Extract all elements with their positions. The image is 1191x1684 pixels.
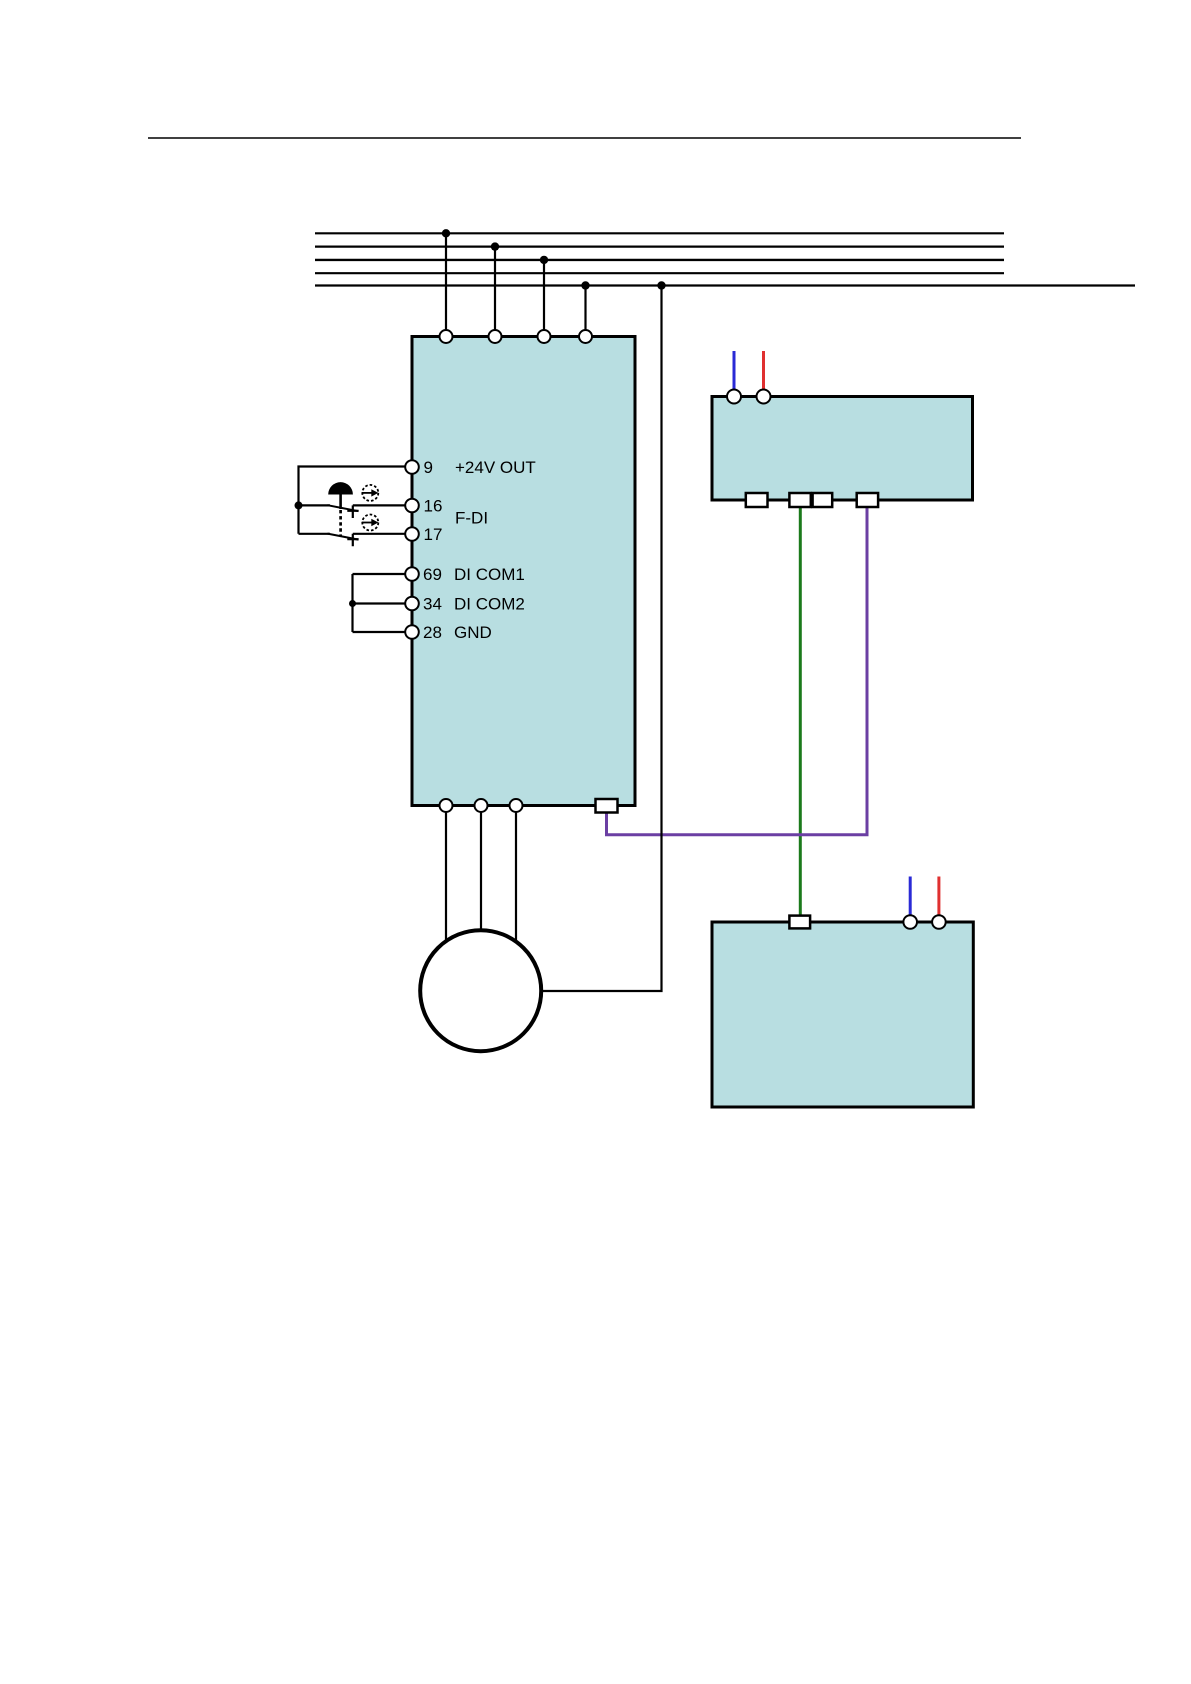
- terminal circle - pin 16: [405, 499, 419, 513]
- wire - drop from bus line 3 to drive terminal 3: [543, 260, 545, 337]
- terminal circle - pin 17: [405, 527, 419, 541]
- connector - controller top port: [789, 916, 810, 929]
- positive opening symbol 1: [362, 485, 379, 501]
- svg-text:17: 17: [424, 525, 443, 544]
- motor M1: [420, 930, 541, 1051]
- wire - motor phase W: [515, 806, 517, 946]
- contact 1 blade (NC): [328, 505, 359, 511]
- wire - mains bus line 3: [315, 259, 1004, 261]
- junction at COM link: [349, 600, 356, 607]
- controller box (lower right): [712, 922, 973, 1107]
- svg-text:69: 69: [423, 565, 442, 584]
- svg-text:16: 16: [424, 497, 443, 516]
- terminal circle - safety relay supply 1: [727, 390, 741, 404]
- terminal circle - drive input 4: [579, 330, 592, 343]
- svg-text:DI COM1: DI COM1: [454, 565, 525, 584]
- junction on bus line 5 (drive feed): [581, 281, 589, 289]
- wire - contact 2 to pin 17: [353, 533, 406, 535]
- wire - mains bus line 2: [315, 246, 1004, 248]
- terminal circle - controller supply 1: [903, 915, 917, 929]
- wire - drop from bus line 5 to drive terminal 4: [584, 286, 586, 337]
- svg-text:28: 28: [423, 623, 442, 642]
- wire - red supply to controller: [937, 877, 940, 916]
- terminal circle - pin 9: [405, 460, 419, 474]
- svg-text:9: 9: [424, 458, 433, 477]
- wire - to pin 34: [353, 602, 406, 604]
- terminal circle - drive output V: [475, 799, 488, 812]
- wire - drop from bus line 2 to drive terminal 2: [494, 247, 496, 337]
- terminal circle - pin 28: [405, 625, 419, 639]
- connector - safety relay bottom port 3: [813, 493, 833, 507]
- junction on bus line 2: [491, 242, 499, 250]
- wire - motor phase V: [480, 806, 482, 936]
- junction on bus line 5 (motor feed): [657, 281, 665, 289]
- drive box U1: [412, 337, 635, 806]
- wire - to pin 28: [353, 631, 406, 633]
- connector - safety relay bottom port 1: [746, 493, 768, 507]
- wire - blue supply to controller: [909, 877, 912, 916]
- junction at e-stop branch: [295, 501, 303, 509]
- contact 1 fixed terminal: [347, 505, 358, 518]
- wire - red supply to safety relay: [762, 351, 765, 390]
- contact 2 fixed terminal: [347, 534, 358, 547]
- header rule: [148, 137, 1021, 139]
- wire - green cable from safety relay to controller: [799, 507, 802, 916]
- junction on bus line 3: [540, 256, 548, 264]
- svg-text:34: 34: [423, 595, 442, 614]
- safety relay box (upper right): [712, 397, 973, 501]
- junction on bus line 1: [442, 229, 450, 237]
- wire - mains bus line 4: [315, 272, 1004, 274]
- svg-text:+24V OUT: +24V OUT: [455, 458, 536, 477]
- wire - to pin 69: [353, 573, 406, 575]
- connector - drive X (feedback) port: [596, 799, 618, 813]
- connector - safety relay bottom port 2: [789, 493, 810, 507]
- wire - +24V OUT to e-stop: [299, 467, 406, 534]
- wire - e-stop to contact 2: [299, 533, 331, 535]
- wire - mains bus line 1: [315, 232, 1004, 234]
- contact 2 blade (NC): [328, 534, 359, 540]
- emergency stop linkage (dashed): [339, 510, 342, 536]
- positive opening symbol 2: [362, 515, 379, 531]
- wire - DI COM1/COM2/GND link vertical: [351, 574, 353, 632]
- wire - drop from bus line 5 to motor frame: [541, 286, 662, 992]
- terminal circle - drive output W: [510, 799, 523, 812]
- terminal circle - drive input L3: [538, 330, 551, 343]
- wire - drop from bus line 1 to drive terminal 1: [445, 233, 447, 336]
- svg-text:F-DI: F-DI: [455, 509, 488, 528]
- svg-text:DI COM2: DI COM2: [454, 595, 525, 614]
- terminal circle - drive output U: [440, 799, 453, 812]
- wire - purple feedback cable from drive X to safety relay: [607, 507, 868, 835]
- terminal circle - safety relay supply 2: [757, 390, 771, 404]
- terminal circle - drive input L2: [489, 330, 502, 343]
- wire - mains bus line 5: [315, 284, 1135, 286]
- terminal circle - pin 69: [405, 567, 419, 581]
- wire - e-stop branch to contact 1: [299, 504, 331, 506]
- terminal circle - drive input L1: [440, 330, 453, 343]
- wire - contact 1 to pin 16: [353, 504, 406, 506]
- emergency stop S1 mushroom head: [328, 482, 353, 494]
- emergency stop actuator stem: [339, 495, 342, 510]
- wire - motor phase U: [445, 806, 447, 946]
- terminal circle - controller supply 2: [932, 915, 946, 929]
- wire - blue supply to safety relay: [733, 351, 736, 390]
- terminal circle - pin 34: [405, 597, 419, 611]
- connector - safety relay bottom port 4: [857, 493, 878, 507]
- svg-text:GND: GND: [454, 623, 492, 642]
